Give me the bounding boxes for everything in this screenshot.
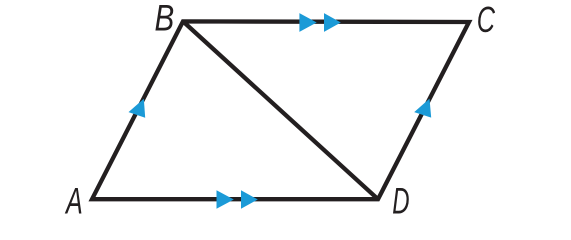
svg-text:B: B xyxy=(155,0,175,39)
parallel mark arrow on side CD xyxy=(414,99,431,118)
svg-text:A: A xyxy=(64,180,82,222)
parallel mark arrow 2 on side AD xyxy=(241,190,258,209)
parallel mark arrow 1 on side AD xyxy=(217,190,234,209)
diagonal BD xyxy=(183,21,378,199)
parallelogram ABCD outline xyxy=(92,21,469,199)
parallel mark arrow 1 on side BC xyxy=(299,13,316,32)
svg-text:D: D xyxy=(392,180,409,222)
parallel mark arrow 2 on side BC xyxy=(324,13,341,32)
svg-text:C: C xyxy=(477,0,496,40)
parallel mark arrow on side AB xyxy=(129,99,146,118)
